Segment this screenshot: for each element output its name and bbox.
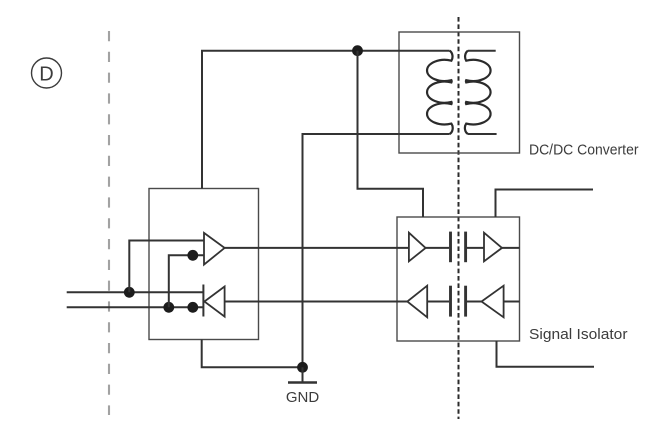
svg-text:DC/DC Converter: DC/DC Converter [529, 142, 639, 159]
wire: barrier to ch2 input triangle [467, 301, 482, 303]
wire: receiver input from isolator channel 2 [225, 301, 408, 303]
wire: isolator bottom-right pin down and to the right [497, 341, 595, 367]
wire: transceiver box bottom to ground junction [202, 340, 303, 368]
isolator ch1 input triangle (points right) [409, 233, 426, 262]
receiver bar at tip [202, 285, 204, 317]
wire: bus A up to driver input [129, 241, 203, 293]
wire: transformer primary bottom to ground rail vertical [303, 134, 450, 367]
transformer primary winding [427, 51, 453, 134]
node: junction dot on bus line B [163, 302, 174, 313]
ground symbol GND [286, 367, 320, 406]
wire: top supply rail from transceiver to transformer primary [202, 51, 450, 189]
DC/DC converter box T1 [399, 32, 520, 153]
wire: bus B up to driver second input [169, 255, 204, 307]
isolator ch1 output triangle (points right) [484, 233, 502, 262]
svg-text:GND: GND [286, 389, 320, 406]
label D circle [32, 58, 62, 88]
node: junction dot at driver second input [187, 250, 198, 261]
capacitor barrier ch1 right plate [464, 232, 467, 263]
node: junction dot on bus line A [124, 287, 135, 298]
transformer secondary winding [465, 51, 491, 134]
transceiver box U1 [149, 189, 259, 340]
capacitor barrier ch2 right plate [464, 286, 467, 317]
node: ground junction dot [297, 362, 308, 373]
capacitor barrier ch1 left plate [449, 232, 452, 263]
wire: from top-rail junction down and over to isolator top-left pin [358, 51, 424, 217]
node: junction dot at receiver input on bus B [187, 302, 198, 313]
wire: bus line A from left edge [67, 291, 203, 293]
isolator ch2 output triangle (points left) [407, 286, 427, 318]
wire: secondary bottom stub [468, 133, 497, 135]
wire: barrier to ch1 output triangle [467, 247, 485, 249]
wire: ch1 triangle to barrier [426, 247, 449, 249]
wire: ch2 triangle to barrier [427, 301, 449, 303]
wire: secondary top stub [468, 50, 496, 52]
wire: isolator top-right pin up and to the right [496, 190, 594, 218]
svg-text:D: D [39, 64, 53, 86]
svg-text:Signal Isolator: Signal Isolator [529, 326, 628, 343]
field-side / isolation dashed boundary line [108, 31, 110, 415]
isolator ch2 input triangle (points left) [482, 286, 504, 318]
galvanic isolation dotted boundary line [458, 17, 460, 419]
node: junction dot on top rail [352, 45, 363, 56]
wire: ch2 from box right edge [504, 301, 520, 303]
receiver triangle (points left) [204, 287, 224, 317]
driver buffer triangle (points right) [204, 233, 225, 265]
capacitor barrier ch2 left plate [449, 286, 452, 317]
signal isolator box U2 [397, 217, 520, 341]
wire: ch1 output to box edge [502, 247, 520, 249]
wire: driver output to isolator channel 1 [225, 247, 409, 249]
wire: bus line B from left edge [67, 306, 203, 308]
